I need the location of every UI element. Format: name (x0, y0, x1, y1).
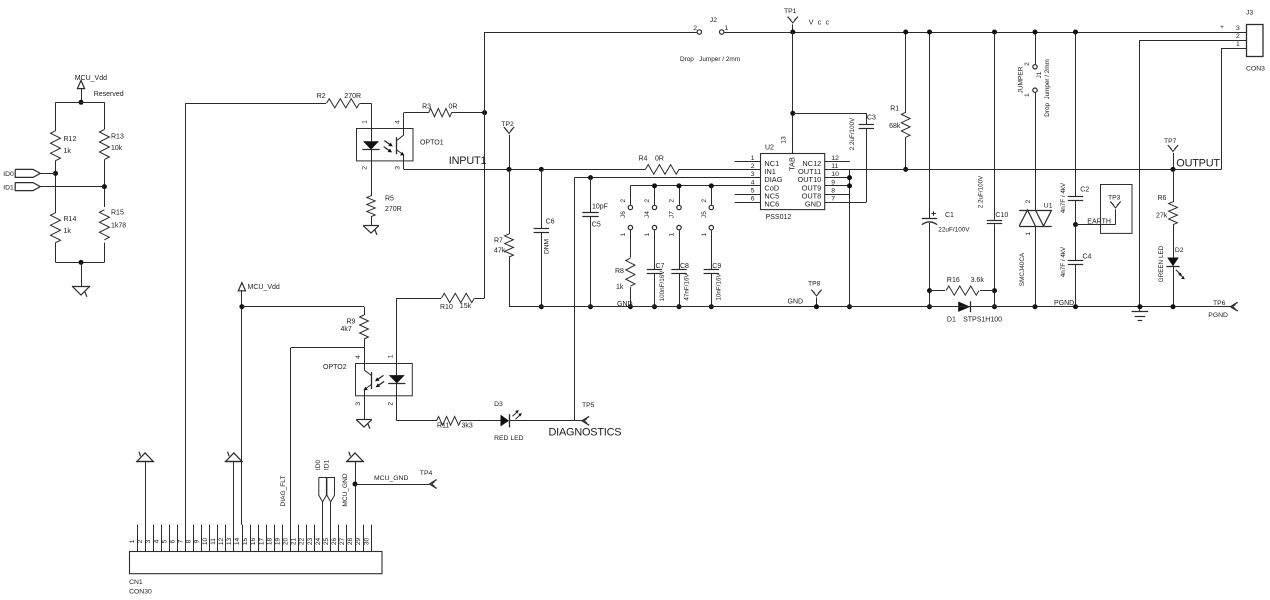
svg-text:R3: R3 (422, 104, 431, 111)
resistor R2 (185, 93, 371, 108)
wire GND-PGND bus (509, 306, 1231, 308)
svg-text:J4: J4 (644, 211, 651, 218)
svg-text:23: 23 (307, 538, 314, 546)
LED D2 (green) (1158, 245, 1185, 306)
svg-text:J7: J7 (669, 211, 676, 218)
label Reserved (94, 91, 124, 98)
node C8 on GND bus (677, 304, 682, 309)
svg-text:ID1: ID1 (324, 460, 331, 471)
opto-coupler OPTO2 emission arrows (375, 375, 384, 387)
jumper J2 (693, 17, 728, 34)
svg-text:R13: R13 (111, 134, 124, 141)
svg-text:TP2: TP2 (501, 121, 514, 128)
connector pin ID1 (CN1 pin 25) (324, 460, 335, 525)
svg-text:RED LED: RED LED (494, 435, 524, 442)
opto-coupler OPTO2 LED (388, 364, 405, 396)
svg-text:2: 2 (669, 199, 676, 203)
opto-coupler OPTO2 box (323, 364, 412, 396)
capacitor C9 (704, 234, 723, 307)
svg-text:PGND: PGND (1208, 312, 1228, 319)
op-amp U2 box (PSS012) (761, 144, 825, 221)
svg-text:11: 11 (210, 538, 217, 545)
node MCU_Vdd top junction (79, 100, 84, 105)
svg-text:R7: R7 (494, 237, 503, 244)
svg-text:OPTO2: OPTO2 (323, 364, 347, 371)
svg-text:R15: R15 (111, 210, 124, 217)
node C9 on GND bus (709, 304, 714, 309)
svg-text:3: 3 (751, 171, 755, 178)
power symbol MCU_Vdd (OPTO2) (238, 283, 280, 292)
svg-text:8: 8 (186, 539, 193, 543)
svg-text:1k78: 1k78 (111, 223, 126, 230)
svg-text:R11: R11 (437, 422, 449, 429)
wire bottom of divider (56, 262, 105, 264)
label OPTO2 pin 4 (355, 355, 362, 359)
node C10 on R16 row (992, 288, 997, 293)
opto-coupler OPTO1 phototransistor (396, 129, 404, 161)
svg-text:ID0: ID0 (3, 171, 14, 178)
opto-coupler OPTO1 box (357, 129, 444, 161)
CON3 pin 3 (+) labels (1220, 24, 1240, 32)
wire right column upper (104, 102, 106, 129)
node C4 on PGND bus (1073, 304, 1078, 309)
node ID0 junction (53, 171, 58, 176)
svg-text:DNM: DNM (543, 239, 550, 254)
svg-text:R9: R9 (347, 319, 356, 326)
node EARTH junction (1073, 222, 1078, 227)
wire DIAG row (575, 177, 761, 179)
resistor R3 (404, 104, 485, 129)
jumper J1 (1017, 32, 1051, 210)
svg-text:TP1: TP1 (784, 8, 797, 15)
test point TP8 (808, 281, 822, 307)
node C1 on R16 row (927, 288, 932, 293)
svg-text:R16: R16 (947, 277, 960, 284)
wire OPTO2 pin2 drop (397, 396, 437, 421)
svg-text:J6: J6 (620, 211, 627, 218)
node TAB junction (790, 111, 795, 116)
power symbol MCU_Vdd (left network) (75, 75, 107, 102)
node ID1 junction (102, 184, 107, 189)
wire ID1 (40, 186, 104, 188)
node C6 on INPUT1 (539, 167, 544, 172)
svg-text:Reserved: Reserved (94, 91, 124, 98)
svg-text:R10: R10 (440, 304, 453, 311)
svg-text:19: 19 (275, 538, 282, 546)
svg-text:17: 17 (258, 538, 265, 546)
svg-text:MCU_Vdd: MCU_Vdd (75, 75, 107, 82)
resistor R5 (367, 161, 402, 226)
wire TAB to C3 (793, 113, 867, 115)
capacitor C2 (1060, 32, 1089, 260)
connector pin ID0 (left) (3, 169, 40, 178)
svg-text:1: 1 (362, 120, 369, 124)
connector J3 CON3 box (1246, 9, 1265, 72)
svg-text:4k7: 4k7 (341, 326, 352, 333)
svg-text:1: 1 (129, 539, 136, 543)
node OUT10 tie (847, 175, 852, 180)
label DIAG_FLT (280, 475, 287, 506)
resistor R13 (99, 130, 124, 160)
jumper J7 (669, 186, 682, 237)
label OPTO1 pin 4 (394, 120, 401, 124)
svg-text:GND: GND (805, 200, 821, 209)
LED D3 (red) (494, 401, 582, 442)
wire CON3 pin2 drop to earth (1139, 40, 1141, 311)
svg-text:D1: D1 (947, 317, 956, 324)
svg-text:2.2uF/100V: 2.2uF/100V (849, 117, 856, 150)
svg-text:10k: 10k (111, 145, 123, 152)
svg-text:V c c: V c c (809, 20, 831, 27)
svg-text:1: 1 (751, 155, 755, 162)
node divider bottom junction (79, 260, 84, 265)
svg-text:100nF/16V: 100nF/16V (659, 270, 666, 302)
svg-text:CON3: CON3 (1246, 65, 1265, 72)
test point TP5 (582, 402, 595, 425)
svg-text:24: 24 (315, 538, 322, 546)
node outputs vertical on GND bus (847, 304, 852, 309)
svg-text:10pF: 10pF (592, 203, 608, 210)
svg-text:1: 1 (644, 232, 651, 236)
label EARTH (1087, 219, 1111, 226)
svg-text:R2: R2 (317, 93, 326, 100)
svg-text:MCU_GND: MCU_GND (342, 473, 349, 507)
svg-text:4n7F / 4kV: 4n7F / 4kV (1060, 182, 1067, 213)
resistor R1 (889, 32, 910, 169)
svg-text:GND: GND (788, 298, 804, 305)
label OPTO2 pin 3 (355, 402, 362, 406)
test point TP7 (1164, 138, 1178, 170)
wire CON3 pin 2 (1140, 33, 1246, 40)
resistor R9 (341, 307, 369, 364)
svg-text:R12: R12 (64, 136, 77, 143)
svg-text:270R: 270R (385, 206, 402, 213)
TVS diode U1 (SMCJ40CA) (1019, 199, 1053, 306)
label PGND (bus) (1054, 300, 1074, 307)
test point TP4 (420, 470, 437, 488)
test point TP6 (1208, 300, 1237, 319)
svg-text:9: 9 (831, 179, 835, 186)
svg-text:20: 20 (283, 538, 290, 546)
svg-text:5: 5 (751, 188, 755, 195)
svg-text:MCU_Vdd: MCU_Vdd (248, 284, 280, 291)
svg-text:2: 2 (644, 199, 651, 203)
svg-text:6: 6 (170, 539, 177, 543)
wire INPUT1 (OPTO1 pin3 to R4) (404, 161, 646, 170)
test point TP3 box (1101, 185, 1133, 234)
capacitor C7 (647, 234, 666, 307)
wire Vcc bus (right of J2) (724, 32, 1246, 34)
svg-text:ID0: ID0 (315, 460, 322, 471)
svg-text:R8: R8 (615, 268, 624, 275)
svg-text:C7: C7 (656, 263, 665, 270)
wire Vcc riser (bus to R10) (484, 32, 486, 298)
wire ID0 (40, 173, 55, 175)
svg-text:22uF/100V: 22uF/100V (938, 227, 970, 234)
wire DIAG_FLT (291, 348, 365, 525)
svg-text:3: 3 (1236, 25, 1240, 32)
svg-text:1: 1 (620, 232, 627, 236)
svg-text:28: 28 (347, 538, 354, 546)
svg-text:4n7F / 4kV: 4n7F / 4kV (1060, 246, 1067, 277)
wire U2 outputs tie vertical (849, 169, 851, 306)
svg-text:JUMPER: JUMPER (1017, 66, 1024, 93)
svg-text:10: 10 (831, 171, 839, 178)
svg-text:DIAGNOSTICS: DIAGNOSTICS (549, 426, 622, 438)
svg-text:15: 15 (242, 538, 249, 546)
svg-text:C3: C3 (867, 114, 876, 121)
svg-text:3.6k: 3.6k (971, 277, 985, 284)
wire TP1 drop to TAB (792, 32, 794, 113)
node C1 on Vcc bus (927, 30, 932, 35)
svg-text:TP8: TP8 (808, 281, 821, 288)
svg-text:1: 1 (725, 25, 729, 32)
node R7 on INPUT1 - duplicate skip (0, 0, 1, 1)
node pin2 riser on PGND bus (1137, 304, 1142, 309)
svg-text:2: 2 (1025, 199, 1032, 203)
jumper J5 (701, 186, 714, 237)
svg-text:TAB: TAB (788, 157, 797, 171)
opto-coupler OPTO1 emission arrows (384, 141, 393, 153)
U2 left pins 1-6 (735, 155, 783, 209)
node R1 on Vcc bus (903, 30, 908, 35)
node R1 on OUTPUT line (903, 167, 908, 172)
svg-text:GREEN LED: GREEN LED (1158, 245, 1165, 282)
wire OUTPUT line (825, 169, 1222, 171)
label INPUT1 net (449, 155, 487, 167)
svg-text:R6: R6 (1158, 195, 1167, 202)
svg-text:11: 11 (831, 163, 838, 170)
svg-text:2: 2 (620, 199, 627, 203)
node C7 on GND bus (652, 304, 657, 309)
svg-text:22: 22 (299, 538, 306, 546)
wire top of divider (56, 102, 105, 104)
node TP1 on Vcc bus (790, 30, 795, 35)
node R8 on GND bus (628, 304, 633, 309)
wire left column lower (55, 243, 57, 263)
svg-text:3: 3 (145, 539, 152, 543)
svg-text:+: + (1220, 24, 1224, 31)
node J7 on CoD row (677, 183, 682, 188)
svg-text:Drop Jumper / 2mm: Drop Jumper / 2mm (680, 56, 740, 63)
svg-text:1: 1 (1024, 93, 1031, 97)
capacitor C5 (582, 178, 608, 307)
svg-text:26: 26 (331, 538, 338, 546)
node J4 on CoD row (652, 183, 657, 188)
node R3 to Vcc riser (482, 110, 487, 115)
wire OPTO2 pin3 to ground (364, 396, 366, 420)
svg-text:1: 1 (1236, 41, 1240, 48)
wire to ground (81, 262, 83, 286)
resistor R6 (1156, 169, 1177, 257)
svg-text:0R: 0R (449, 104, 458, 111)
svg-text:2: 2 (1236, 33, 1240, 40)
svg-text:TP7: TP7 (1164, 138, 1177, 145)
svg-text:13: 13 (226, 538, 233, 546)
svg-text:J2: J2 (710, 17, 717, 24)
svg-text:C10: C10 (995, 212, 1008, 219)
svg-text:12: 12 (218, 538, 225, 546)
svg-text:TP4: TP4 (420, 470, 433, 477)
wire U2 GND pin 7 to C3 (825, 202, 867, 204)
wire left column mid (55, 161, 57, 214)
svg-text:3k3: 3k3 (462, 422, 473, 429)
resistor R16 (930, 277, 995, 295)
wire MCU_Vdd to R9 (242, 306, 364, 308)
resistor R10 (397, 293, 485, 310)
test point TP3 (1110, 202, 1120, 225)
label OPTO1 pin 2 (362, 166, 369, 170)
test point TP2 (501, 121, 514, 169)
svg-text:47nF/16V: 47nF/16V (684, 273, 691, 301)
opto-coupler OPTO1 LED (362, 129, 379, 161)
diode D1 (STPS1H100) (947, 301, 1002, 323)
ground (under OPTO2) (356, 420, 372, 429)
resistor R14 (51, 213, 77, 243)
node U1 on PGND bus (1033, 304, 1038, 309)
svg-text:CON30: CON30 (129, 589, 152, 596)
svg-text:12: 12 (831, 155, 839, 162)
svg-text:1k: 1k (616, 284, 624, 291)
svg-text:CN1: CN1 (129, 579, 143, 586)
capacitor C6 (534, 169, 555, 306)
svg-text:C9: C9 (712, 263, 721, 270)
svg-text:Drop Jumper / 2mm: Drop Jumper / 2mm (1044, 59, 1051, 116)
svg-text:7: 7 (178, 539, 185, 543)
svg-text:3: 3 (394, 166, 401, 170)
svg-text:NC6: NC6 (764, 200, 779, 209)
svg-text:R14: R14 (64, 216, 77, 223)
svg-text:0R: 0R (655, 156, 664, 163)
svg-text:OPTO1: OPTO1 (420, 139, 444, 146)
svg-text:TP6: TP6 (1213, 300, 1226, 307)
capacitor C8 (671, 234, 690, 307)
svg-text:3: 3 (355, 402, 362, 406)
node C6 on GND bus (539, 304, 544, 309)
resistor R11 (437, 416, 501, 429)
svg-text:J3: J3 (1246, 9, 1253, 16)
connector CN1 CON30 (129, 525, 382, 596)
svg-text:13: 13 (781, 136, 788, 144)
node TP8 on GND bus (814, 304, 819, 309)
svg-text:7: 7 (831, 196, 835, 203)
svg-text:MCU_GND: MCU_GND (374, 475, 408, 482)
ground (under R5) (363, 226, 379, 235)
label DIAGNOSTICS net (549, 426, 622, 438)
svg-text:25: 25 (323, 538, 330, 546)
resistor R15 (99, 210, 126, 240)
svg-text:14: 14 (234, 538, 241, 546)
node C5 on GND bus (588, 304, 593, 309)
svg-text:SMCJ40CA: SMCJ40CA (1019, 252, 1026, 286)
svg-text:C5: C5 (592, 221, 601, 228)
svg-text:PSS012: PSS012 (766, 214, 792, 221)
capacitor C3 (849, 113, 876, 202)
svg-text:J1: J1 (1036, 71, 1043, 78)
node C10/D1 on GND bus (992, 304, 997, 309)
svg-text:9: 9 (194, 539, 201, 543)
svg-text:29: 29 (355, 538, 362, 546)
wire OPTO1 pin 1 drop (362, 103, 372, 128)
wire CON3 pin1 drop to OUTPUT (1221, 48, 1223, 169)
svg-text:ID1: ID1 (3, 184, 14, 191)
svg-text:J5: J5 (701, 211, 708, 218)
power arrow (CN1 pin 13) (225, 452, 243, 525)
resistor R7 (494, 169, 513, 306)
svg-text:2: 2 (701, 199, 708, 203)
label Vcc net (809, 20, 831, 27)
wire CN1 pin14 riser (241, 290, 243, 525)
opto-coupler OPTO2 phototransistor (363, 364, 371, 396)
svg-text:10: 10 (202, 538, 209, 546)
svg-text:21: 21 (291, 538, 298, 546)
svg-text:4: 4 (394, 120, 401, 124)
node J1 on Vcc bus (1033, 30, 1038, 35)
svg-text:18: 18 (266, 538, 273, 546)
svg-text:2: 2 (387, 402, 394, 406)
jumper J4 (644, 186, 657, 237)
svg-text:TP3: TP3 (1108, 194, 1121, 201)
label GND (near R8) (617, 301, 633, 308)
wire MCU_GND to TP4 (355, 475, 430, 485)
wire right column lower (104, 243, 106, 263)
wire DIAG drop (to diagnostics line) (574, 178, 576, 421)
wire EARTH (1076, 224, 1116, 226)
svg-text:INPUT1: INPUT1 (449, 155, 487, 167)
node C5 on DIAG (588, 175, 593, 180)
node J5 on CoD row (709, 183, 714, 188)
svg-text:15k: 15k (460, 303, 472, 310)
svg-text:U1: U1 (1044, 202, 1053, 209)
node OUT9 tie (847, 183, 852, 188)
svg-text:STPS1H100: STPS1H100 (963, 317, 1002, 324)
svg-text:C4: C4 (1083, 253, 1092, 260)
svg-text:2: 2 (751, 163, 755, 170)
svg-text:4: 4 (751, 179, 755, 186)
node D2 on PGND bus (1171, 304, 1176, 309)
node C10 on Vcc bus (992, 30, 997, 35)
svg-text:68k: 68k (889, 123, 901, 130)
svg-text:DIAG_FLT: DIAG_FLT (280, 475, 287, 506)
svg-text:D3: D3 (494, 401, 503, 408)
svg-text:1: 1 (669, 232, 676, 236)
connector pin ID0 (CN1 pin 24) (315, 460, 326, 525)
svg-text:27k: 27k (1156, 213, 1168, 220)
resistor R4 (639, 156, 761, 175)
label GND (near TP8) (788, 298, 804, 305)
svg-text:8: 8 (831, 188, 835, 195)
earth ground (chassis) (1132, 312, 1149, 321)
svg-text:2: 2 (1024, 62, 1031, 66)
svg-text:TP5: TP5 (582, 402, 595, 409)
power arrow (CN1 pin 2) (136, 452, 154, 525)
node C2 on Vcc bus (1073, 30, 1078, 35)
label OUTPUT net (1176, 158, 1220, 170)
node TP2/R7 on INPUT1 (507, 167, 512, 172)
svg-text:D2: D2 (1175, 247, 1184, 254)
power arrow MCU_GND (CN1 pin 28) (346, 452, 364, 525)
svg-text:R1: R1 (890, 106, 899, 113)
svg-text:30: 30 (363, 538, 370, 546)
svg-text:1k: 1k (64, 228, 72, 235)
ground (left network) (72, 286, 90, 297)
svg-text:1: 1 (387, 354, 394, 358)
capacitor C1 (922, 32, 971, 307)
svg-text:2.2uF/100V: 2.2uF/100V (977, 175, 984, 208)
svg-text:5: 5 (161, 539, 168, 543)
svg-text:C2: C2 (1080, 186, 1089, 193)
svg-text:4: 4 (153, 539, 160, 543)
